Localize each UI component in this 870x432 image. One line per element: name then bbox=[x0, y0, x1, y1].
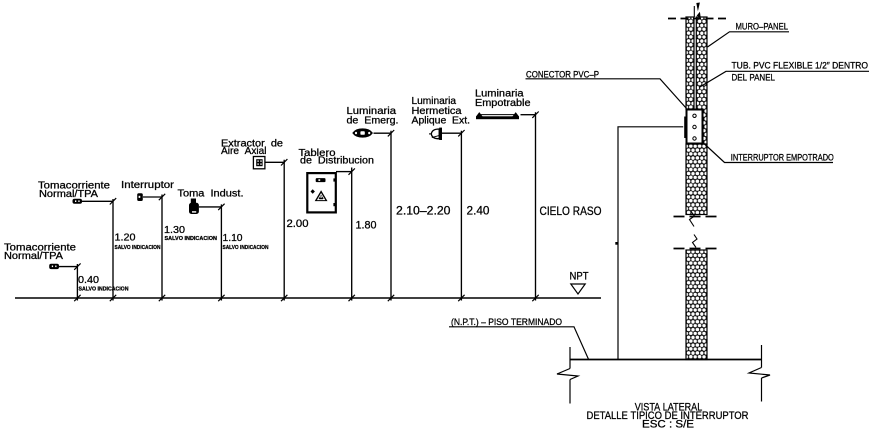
svg-text:(N.P.T.) – PISO TERMINADO: (N.P.T.) – PISO TERMINADO bbox=[451, 316, 562, 327]
svg-text:SALVO INDICACION: SALVO INDICACION bbox=[223, 245, 269, 251]
svg-text:NPT: NPT bbox=[570, 271, 589, 283]
svg-text:2.10–2.20: 2.10–2.20 bbox=[396, 204, 451, 218]
svg-text:MURO–PANEL: MURO–PANEL bbox=[736, 21, 789, 32]
svg-text:2.00: 2.00 bbox=[287, 218, 309, 230]
svg-text:INTERRUPTOR EMPOTRADO: INTERRUPTOR EMPOTRADO bbox=[731, 151, 834, 162]
svg-text:CONECTOR PVC–P: CONECTOR PVC–P bbox=[526, 68, 599, 79]
svg-text:Toma Indust.: Toma Indust. bbox=[178, 189, 244, 200]
svg-text:de Emerg.: de Emerg. bbox=[347, 116, 399, 127]
svg-text:Empotrable: Empotrable bbox=[475, 98, 531, 109]
svg-text:Aire Axial: Aire Axial bbox=[221, 146, 267, 157]
svg-text:Normal/TPA: Normal/TPA bbox=[39, 189, 98, 200]
svg-text:0.40: 0.40 bbox=[78, 274, 99, 286]
svg-text:SALVO INDICACION: SALVO INDICACION bbox=[165, 236, 218, 242]
svg-text:1.20: 1.20 bbox=[115, 232, 136, 244]
svg-text:1.80: 1.80 bbox=[356, 220, 377, 232]
svg-text:ESC : S/E: ESC : S/E bbox=[642, 419, 694, 431]
svg-text:DEL PANEL: DEL PANEL bbox=[732, 72, 776, 83]
svg-text:Normal/TPA: Normal/TPA bbox=[4, 251, 63, 262]
svg-text:TUB. PVC FLEXIBLE 1/2″ DENTRO: TUB. PVC FLEXIBLE 1/2″ DENTRO bbox=[732, 59, 869, 70]
svg-text:Interruptor: Interruptor bbox=[121, 180, 175, 191]
svg-text:SALVO INDICACION: SALVO INDICACION bbox=[79, 287, 129, 293]
svg-text:CIELO RASO: CIELO RASO bbox=[540, 204, 602, 218]
svg-text:1.10: 1.10 bbox=[223, 232, 243, 244]
svg-text:2.40: 2.40 bbox=[467, 204, 490, 218]
svg-text:de Distribucion: de Distribucion bbox=[300, 156, 374, 167]
svg-text:1.30: 1.30 bbox=[164, 224, 185, 236]
svg-text:Aplique Ext.: Aplique Ext. bbox=[412, 116, 471, 127]
svg-text:SALVO INDICACION: SALVO INDICACION bbox=[115, 245, 161, 251]
